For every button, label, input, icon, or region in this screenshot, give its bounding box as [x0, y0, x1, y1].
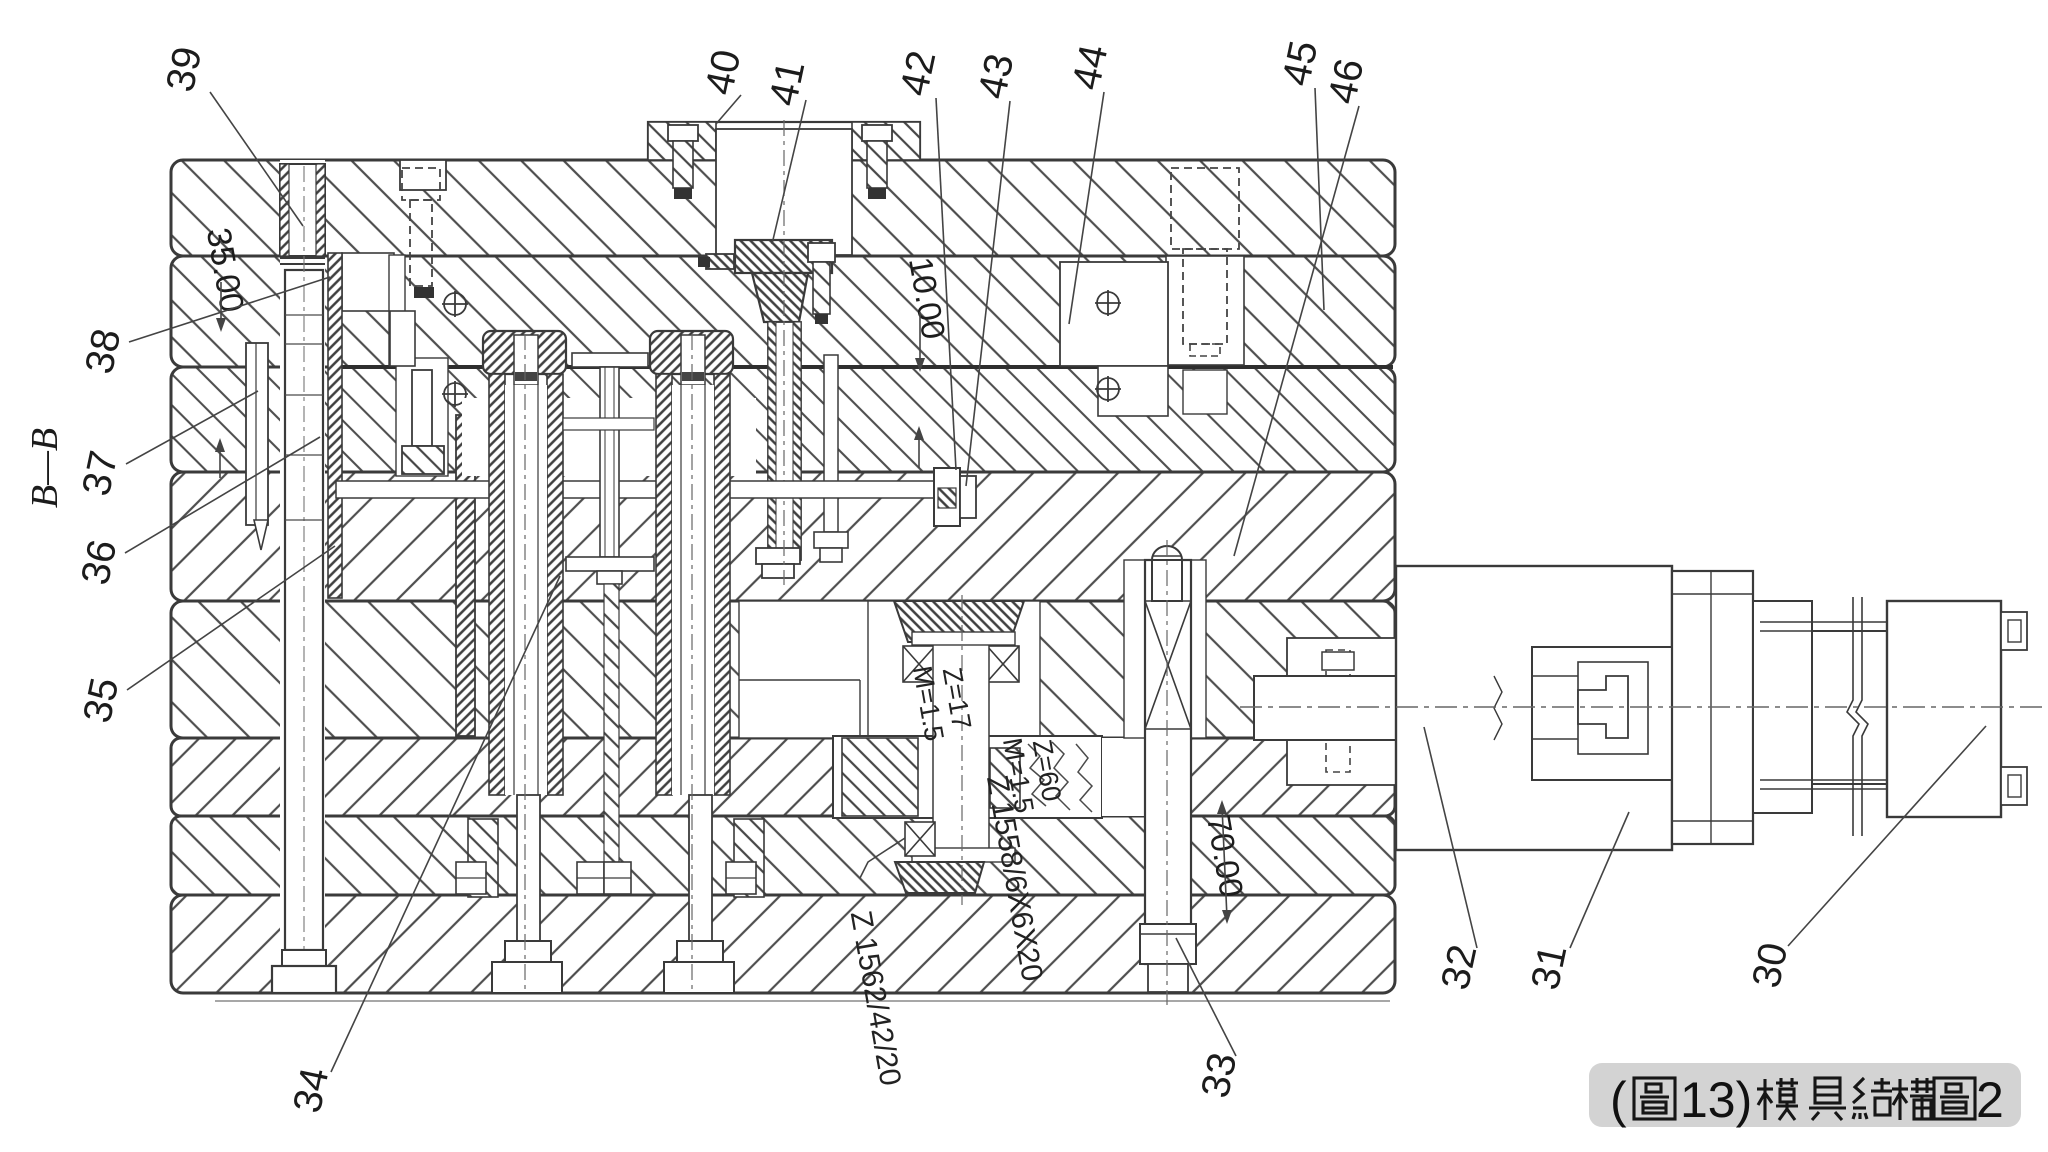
- hidden bolt left: [402, 168, 440, 200]
- leader 31: [1570, 812, 1629, 948]
- sprue bushing taper: [752, 273, 808, 322]
- svg-text:39: 39: [158, 43, 210, 96]
- shaft 32 break: [1494, 676, 1502, 740]
- plate bottom clamp: [171, 895, 1395, 993]
- sleeve A collar: [468, 819, 498, 897]
- block 31: [1396, 566, 1672, 850]
- retainer bar: [566, 557, 654, 571]
- row5 white pockets: [739, 601, 905, 738]
- leader 44: [1069, 92, 1104, 324]
- hidden bolt left pocket: [400, 160, 446, 190]
- svg-text:42: 42: [892, 47, 944, 100]
- svg-text:33: 33: [1193, 1049, 1245, 1102]
- svg-text:30: 30: [1744, 939, 1796, 992]
- guide bushing 39: [280, 164, 325, 256]
- gear centerline: [961, 595, 963, 905]
- svg-text:35: 35: [75, 674, 127, 727]
- leader 39: [210, 92, 303, 226]
- insert edge band left: [328, 253, 342, 598]
- bearing housing: [1672, 571, 1753, 844]
- leader 33: [1176, 938, 1236, 1056]
- plate spacer: [171, 738, 1395, 816]
- leader 30: [1788, 726, 1986, 946]
- pin lower section: [604, 584, 619, 862]
- retainer pocket: [462, 398, 756, 476]
- side bolt at bushing: [808, 243, 835, 262]
- svg-text:(: (: [1610, 1072, 1627, 1128]
- svg-text:43: 43: [970, 50, 1022, 103]
- ejector sleeve A: [483, 331, 566, 374]
- leader 34: [331, 576, 560, 1072]
- hidden bolt right pocket: [1166, 256, 1244, 365]
- gear band Z60: [833, 736, 1102, 818]
- leader 38: [129, 277, 330, 342]
- right pocket: [1060, 262, 1168, 366]
- svg-text:B—B: B—B: [24, 428, 66, 508]
- gear teeth texture: [1028, 742, 1092, 812]
- plate 45 top clamp plate: [171, 160, 1395, 256]
- plate support: [171, 816, 1395, 895]
- leader 36: [125, 437, 320, 553]
- svg-text:41: 41: [761, 57, 813, 110]
- insert edge band: [456, 415, 475, 736]
- svg-text:32: 32: [1433, 941, 1485, 994]
- svg-text:36: 36: [73, 536, 125, 589]
- leader 35: [127, 546, 335, 690]
- thin plate 37: [246, 343, 268, 525]
- svg-text:46: 46: [1320, 55, 1372, 108]
- caption box: [1589, 1063, 2021, 1127]
- gear collars: [912, 632, 1015, 645]
- gear pocket: [868, 601, 1040, 736]
- bearing box right: [987, 646, 1019, 682]
- shaft 33 foot: [1140, 924, 1196, 964]
- end bolts: [2001, 612, 2027, 650]
- ejector sleeve B: [650, 331, 733, 374]
- right notch: [1287, 638, 1396, 785]
- leader 46: [1234, 106, 1359, 556]
- lower bolt left: [396, 358, 448, 476]
- svg-text:45: 45: [1274, 37, 1326, 90]
- screw cross symbols: [442, 290, 1121, 407]
- screw boxes: [577, 862, 604, 894]
- gear hub bottom: [895, 862, 984, 893]
- svg-text:37: 37: [74, 447, 126, 500]
- hidden bolt right: [1171, 168, 1239, 249]
- out shaft: [1812, 630, 1890, 632]
- plate cavity: [171, 472, 1395, 601]
- sleeve A center pin: [517, 795, 540, 941]
- main centerline: [1240, 706, 2042, 708]
- shaft 32: [1254, 676, 1607, 740]
- stop pin 36: [254, 520, 268, 550]
- guide pillar body: [285, 270, 323, 950]
- slot latch 42: [934, 468, 960, 526]
- svg-text:40: 40: [697, 46, 749, 99]
- runner lock rod: [824, 355, 838, 532]
- leader 43: [966, 101, 1010, 486]
- sleeve B center pin: [689, 795, 712, 941]
- plate 44 upper plate: [171, 256, 1395, 367]
- leader 40: [716, 95, 741, 124]
- leader 42: [936, 98, 956, 470]
- cavity steps: [342, 253, 394, 311]
- leader 41: [772, 100, 806, 244]
- svg-text:2: 2: [1976, 1072, 2004, 1128]
- plate stripper: [171, 367, 1395, 472]
- leader 32: [1424, 727, 1477, 948]
- leader 45: [1315, 88, 1324, 310]
- sleeve B foot: [677, 941, 723, 962]
- sprue stem foot: [756, 548, 800, 564]
- bearing box left: [903, 646, 935, 682]
- sprue stem: [768, 322, 801, 560]
- flange bolt right: [862, 125, 892, 141]
- clevis fork: [1532, 647, 1672, 780]
- spacer band: [563, 418, 654, 430]
- bearing box bottom: [905, 822, 935, 856]
- svg-text:31: 31: [1523, 941, 1575, 994]
- pillar foot: [282, 950, 326, 966]
- B-B slot: [280, 160, 325, 993]
- sprue bushing tab: [706, 254, 734, 269]
- sprue pocket: [716, 129, 852, 255]
- leader 37: [126, 391, 258, 464]
- shaft 33 bore: [1124, 560, 1206, 738]
- flange bolt left: [668, 125, 698, 141]
- break bars: [1847, 597, 1859, 836]
- sleeve B collar: [734, 819, 764, 897]
- svg-text:13): 13): [1680, 1072, 1752, 1128]
- clamp bolt dashed: [1326, 650, 1350, 772]
- ground shadow line: [215, 1000, 1390, 1002]
- sprue bushing head: [735, 240, 832, 273]
- sprue centerline: [783, 120, 785, 585]
- sleeve A foot: [505, 941, 551, 962]
- center pin: [600, 367, 619, 557]
- svg-text:34: 34: [285, 1064, 337, 1117]
- gear hub top: [894, 601, 1024, 642]
- parting slot: [336, 481, 936, 498]
- spacer block: [1753, 601, 1812, 813]
- tie rods: [1760, 621, 2000, 623]
- parting line emphasized: [336, 365, 1393, 369]
- vertical gear shaft 33: [1145, 560, 1191, 964]
- locating flange: [648, 122, 920, 160]
- svg-text:38: 38: [77, 325, 129, 378]
- stripper T-bar: [572, 353, 648, 367]
- gear shaft: [933, 642, 989, 854]
- end block 30: [1887, 601, 2001, 817]
- plate core support: [171, 601, 1395, 738]
- svg-text:44: 44: [1064, 41, 1116, 94]
